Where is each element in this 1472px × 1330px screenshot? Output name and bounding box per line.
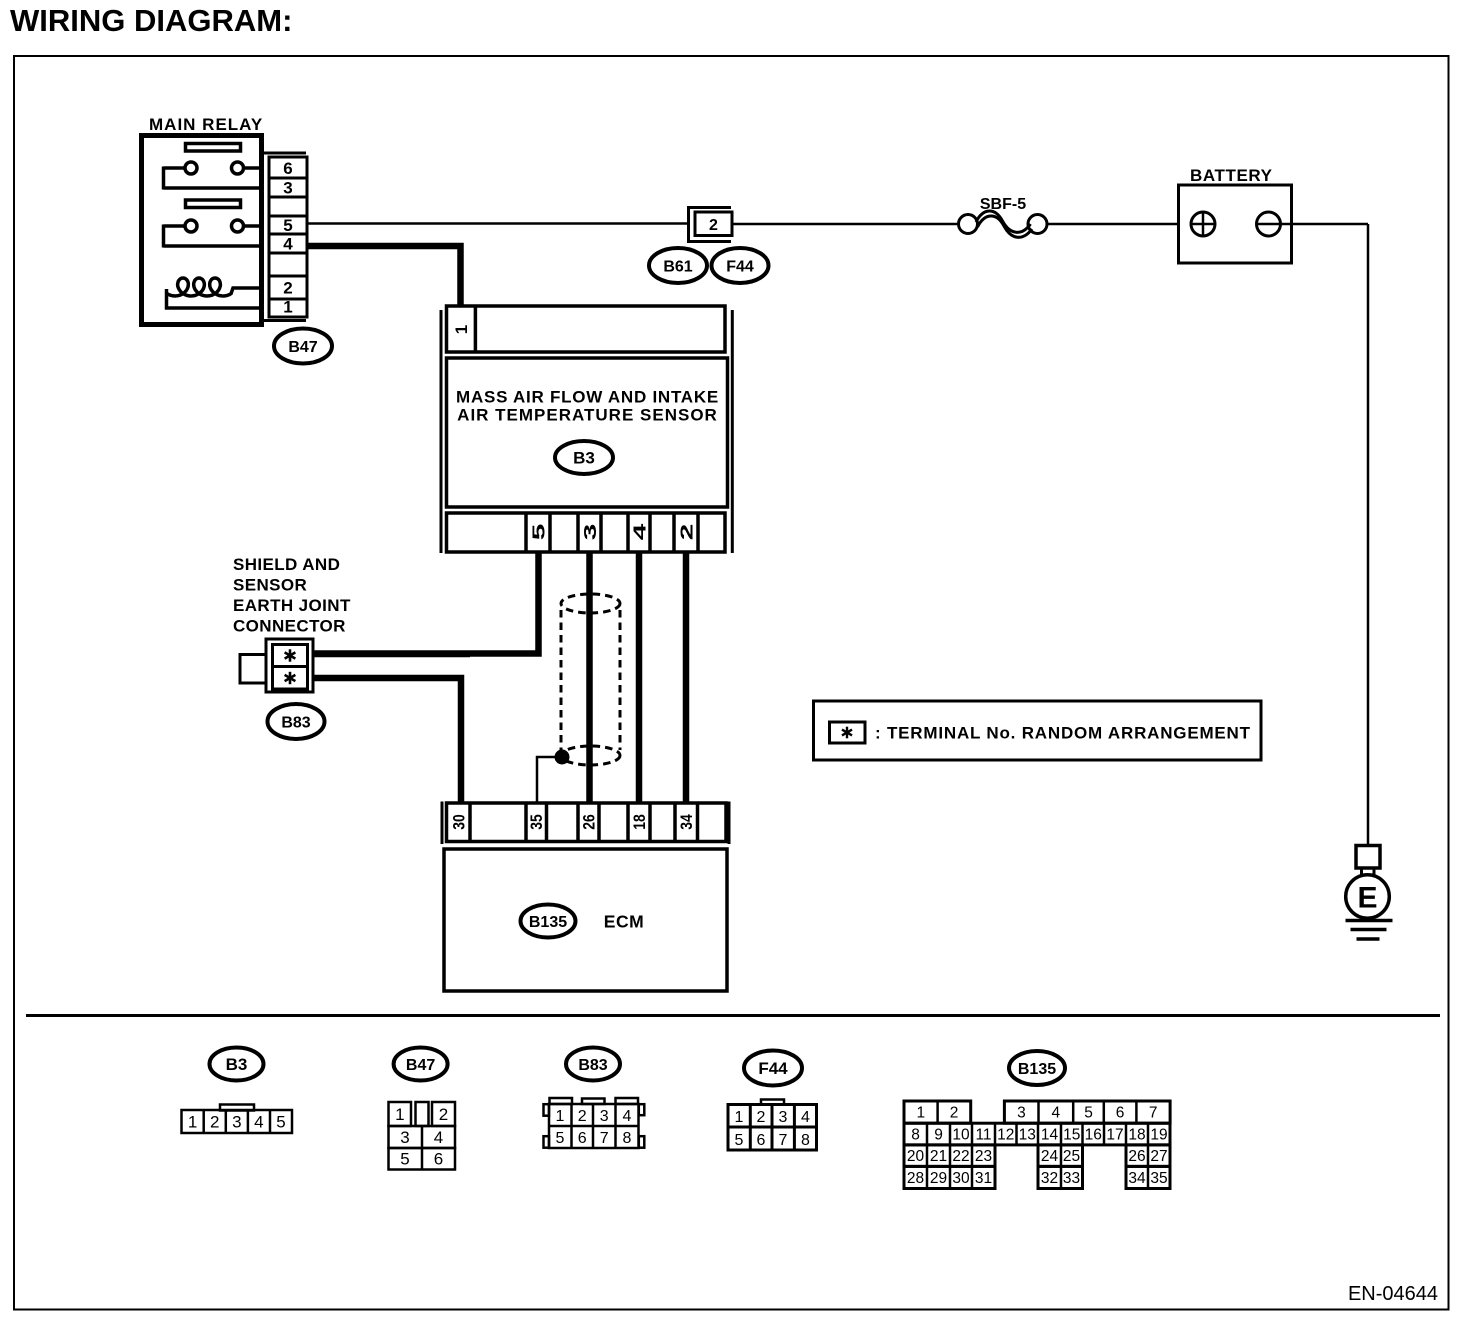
svg-text:ECM: ECM [604, 912, 644, 932]
svg-text:6: 6 [578, 1130, 587, 1147]
svg-text:B83: B83 [281, 714, 310, 731]
svg-text:8: 8 [911, 1127, 920, 1144]
svg-text:6: 6 [757, 1132, 766, 1149]
svg-text:CONNECTOR: CONNECTOR [233, 617, 346, 636]
svg-text:F44: F44 [758, 1059, 788, 1078]
svg-text:2: 2 [709, 217, 718, 234]
svg-text:WIRING DIAGRAM:: WIRING DIAGRAM: [10, 3, 292, 38]
svg-text:SENSOR: SENSOR [233, 576, 307, 595]
svg-text:29: 29 [930, 1170, 947, 1187]
svg-text:E: E [1357, 882, 1377, 915]
svg-text:4: 4 [623, 1108, 632, 1125]
svg-text:3: 3 [283, 179, 292, 198]
svg-text:7: 7 [779, 1132, 788, 1149]
svg-text:F44: F44 [726, 258, 754, 275]
svg-text:19: 19 [1150, 1127, 1167, 1144]
svg-text:30: 30 [952, 1170, 970, 1187]
svg-text:35: 35 [1150, 1170, 1167, 1187]
svg-text:4: 4 [801, 1109, 810, 1126]
svg-text:31: 31 [975, 1170, 992, 1187]
svg-text:3: 3 [400, 1128, 409, 1147]
svg-text:EN-04644: EN-04644 [1348, 1283, 1438, 1305]
svg-text:AIR TEMPERATURE SENSOR: AIR TEMPERATURE SENSOR [457, 406, 718, 425]
svg-text:3: 3 [581, 524, 600, 541]
svg-text:17: 17 [1106, 1127, 1123, 1144]
svg-text:25: 25 [1063, 1148, 1080, 1165]
svg-text:3: 3 [779, 1109, 788, 1126]
svg-text:24: 24 [1041, 1148, 1059, 1165]
svg-text:1: 1 [188, 1113, 197, 1132]
svg-text:33: 33 [1063, 1170, 1080, 1187]
svg-text:26: 26 [1128, 1148, 1145, 1165]
svg-text:3: 3 [232, 1113, 241, 1132]
svg-text:B135: B135 [529, 914, 567, 931]
svg-text:2: 2 [439, 1105, 448, 1124]
svg-text:MAIN RELAY: MAIN RELAY [149, 115, 263, 134]
svg-text:35: 35 [528, 814, 547, 830]
svg-text:14: 14 [1041, 1127, 1059, 1144]
svg-text:22: 22 [952, 1148, 969, 1165]
svg-text:6: 6 [1116, 1105, 1125, 1122]
svg-text:7: 7 [1149, 1105, 1158, 1122]
svg-text:SHIELD AND: SHIELD AND [233, 555, 340, 574]
svg-text:5: 5 [400, 1150, 409, 1169]
svg-text:3: 3 [600, 1108, 609, 1125]
svg-text:1: 1 [556, 1108, 565, 1125]
svg-text:B83: B83 [578, 1057, 607, 1074]
svg-text:28: 28 [907, 1170, 924, 1187]
svg-text:34: 34 [1128, 1170, 1146, 1187]
svg-text:23: 23 [975, 1148, 992, 1165]
svg-text:11: 11 [975, 1127, 991, 1144]
svg-text:16: 16 [1085, 1127, 1102, 1144]
svg-text:7: 7 [600, 1130, 609, 1147]
svg-text:18: 18 [631, 814, 650, 830]
svg-text:20: 20 [907, 1148, 925, 1165]
svg-text:2: 2 [757, 1109, 766, 1126]
svg-text:34: 34 [678, 814, 697, 830]
svg-text:32: 32 [1041, 1170, 1058, 1187]
svg-text:4: 4 [630, 523, 649, 540]
svg-text:B135: B135 [1018, 1061, 1056, 1078]
svg-text:12: 12 [997, 1127, 1014, 1144]
svg-text:4: 4 [434, 1128, 443, 1147]
svg-text:27: 27 [1150, 1148, 1167, 1165]
svg-text:21: 21 [930, 1148, 947, 1165]
svg-text:1: 1 [916, 1105, 925, 1122]
svg-text:6: 6 [434, 1150, 443, 1169]
svg-text:1: 1 [395, 1105, 404, 1124]
svg-text:MASS AIR FLOW AND INTAKE: MASS AIR FLOW AND INTAKE [456, 388, 719, 407]
svg-text:B3: B3 [226, 1055, 248, 1074]
svg-text:1: 1 [735, 1109, 744, 1126]
svg-text:2: 2 [210, 1113, 219, 1132]
svg-text:B47: B47 [406, 1057, 435, 1074]
svg-text:8: 8 [801, 1132, 810, 1149]
svg-text:B3: B3 [573, 449, 595, 468]
svg-text:15: 15 [1063, 1127, 1080, 1144]
svg-text:10: 10 [952, 1127, 970, 1144]
svg-text:4: 4 [1052, 1105, 1061, 1122]
svg-text:3: 3 [1017, 1105, 1026, 1122]
svg-text:5: 5 [283, 216, 292, 235]
svg-text:2: 2 [677, 524, 696, 541]
svg-text:30: 30 [450, 814, 469, 829]
svg-text:1: 1 [452, 325, 471, 334]
svg-text:B61: B61 [663, 258, 692, 275]
svg-text:4: 4 [254, 1113, 263, 1132]
svg-text:18: 18 [1128, 1127, 1145, 1144]
svg-text:6: 6 [283, 159, 292, 178]
svg-text:9: 9 [934, 1127, 943, 1144]
svg-text:26: 26 [580, 814, 599, 830]
svg-text:BATTERY: BATTERY [1190, 166, 1273, 185]
svg-text:2: 2 [578, 1108, 587, 1125]
svg-text:1: 1 [283, 298, 292, 317]
svg-text:13: 13 [1019, 1127, 1036, 1144]
svg-text:5: 5 [529, 524, 548, 541]
svg-text:5: 5 [556, 1130, 565, 1147]
svg-text:5: 5 [276, 1113, 285, 1132]
svg-text:2: 2 [283, 279, 292, 298]
svg-text:EARTH JOINT: EARTH JOINT [233, 596, 351, 615]
svg-text:: TERMINAL No. RANDOM ARRANGEM: : TERMINAL No. RANDOM ARRANGEMENT [875, 724, 1251, 743]
svg-text:5: 5 [735, 1132, 744, 1149]
svg-text:2: 2 [950, 1105, 959, 1122]
svg-text:B47: B47 [288, 339, 317, 356]
svg-text:4: 4 [283, 235, 293, 254]
svg-text:5: 5 [1084, 1105, 1093, 1122]
svg-text:8: 8 [623, 1130, 632, 1147]
